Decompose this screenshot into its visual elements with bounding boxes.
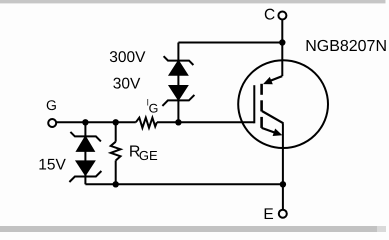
wire bottom rail (85, 183, 283, 185)
svg-text:C: C (264, 6, 275, 23)
svg-text:G: G (149, 101, 159, 115)
svg-text:30V: 30V (113, 75, 141, 92)
zener D4 15V bottom (69, 161, 101, 182)
node gate/clamp junction (175, 119, 181, 125)
top gray bar (0, 0, 386, 3)
node gate/15V junction (82, 119, 88, 125)
wire collector vertical (281, 20, 283, 76)
emitter diagonal with arrow (262, 128, 275, 133)
bottom gray bar (0, 226, 377, 232)
terminal C (278, 12, 286, 20)
node gate/RGE junction (113, 119, 119, 125)
terminal G (48, 119, 56, 127)
wire emitter vertical (282, 123, 284, 210)
channel segment 1 (260, 84, 263, 95)
svg-text:GE: GE (139, 148, 158, 163)
gate bar (253, 85, 255, 123)
collector diagonal with arrow (268, 76, 283, 82)
node collector junction (279, 39, 285, 45)
svg-text:15V: 15V (38, 157, 66, 174)
resistor RGE (111, 142, 121, 161)
zener D3 15V top (70, 132, 101, 151)
wire gate left segment (56, 121, 135, 123)
label RG (faint mark + G) (147, 99, 149, 106)
terminal E (279, 210, 287, 218)
channel segment 2 (260, 100, 263, 111)
wire gate right segment (157, 121, 254, 123)
svg-text:NGB8207N: NGB8207N (305, 38, 387, 55)
wire top horizontal (178, 42, 282, 44)
svg-text:E: E (263, 206, 273, 223)
body diagonal (262, 111, 284, 123)
resistor RG (136, 118, 157, 128)
zener D2 30V (162, 86, 194, 106)
wire 15V zener stack vertical (84, 122, 86, 184)
node rail/emitter junction (280, 181, 286, 187)
wire zener clamp stack vertical (177, 43, 179, 123)
wire RGE bottom stub (115, 161, 117, 185)
wire RGE top stub (115, 122, 117, 141)
svg-text:G: G (46, 97, 57, 113)
node rail/RGE junction (113, 181, 119, 187)
transistor Q1 NGB8207N (IGBT) (238, 60, 328, 148)
zener D1 300V (164, 56, 194, 75)
svg-text:300V: 300V (109, 49, 146, 66)
channel segment 3 (260, 117, 263, 128)
